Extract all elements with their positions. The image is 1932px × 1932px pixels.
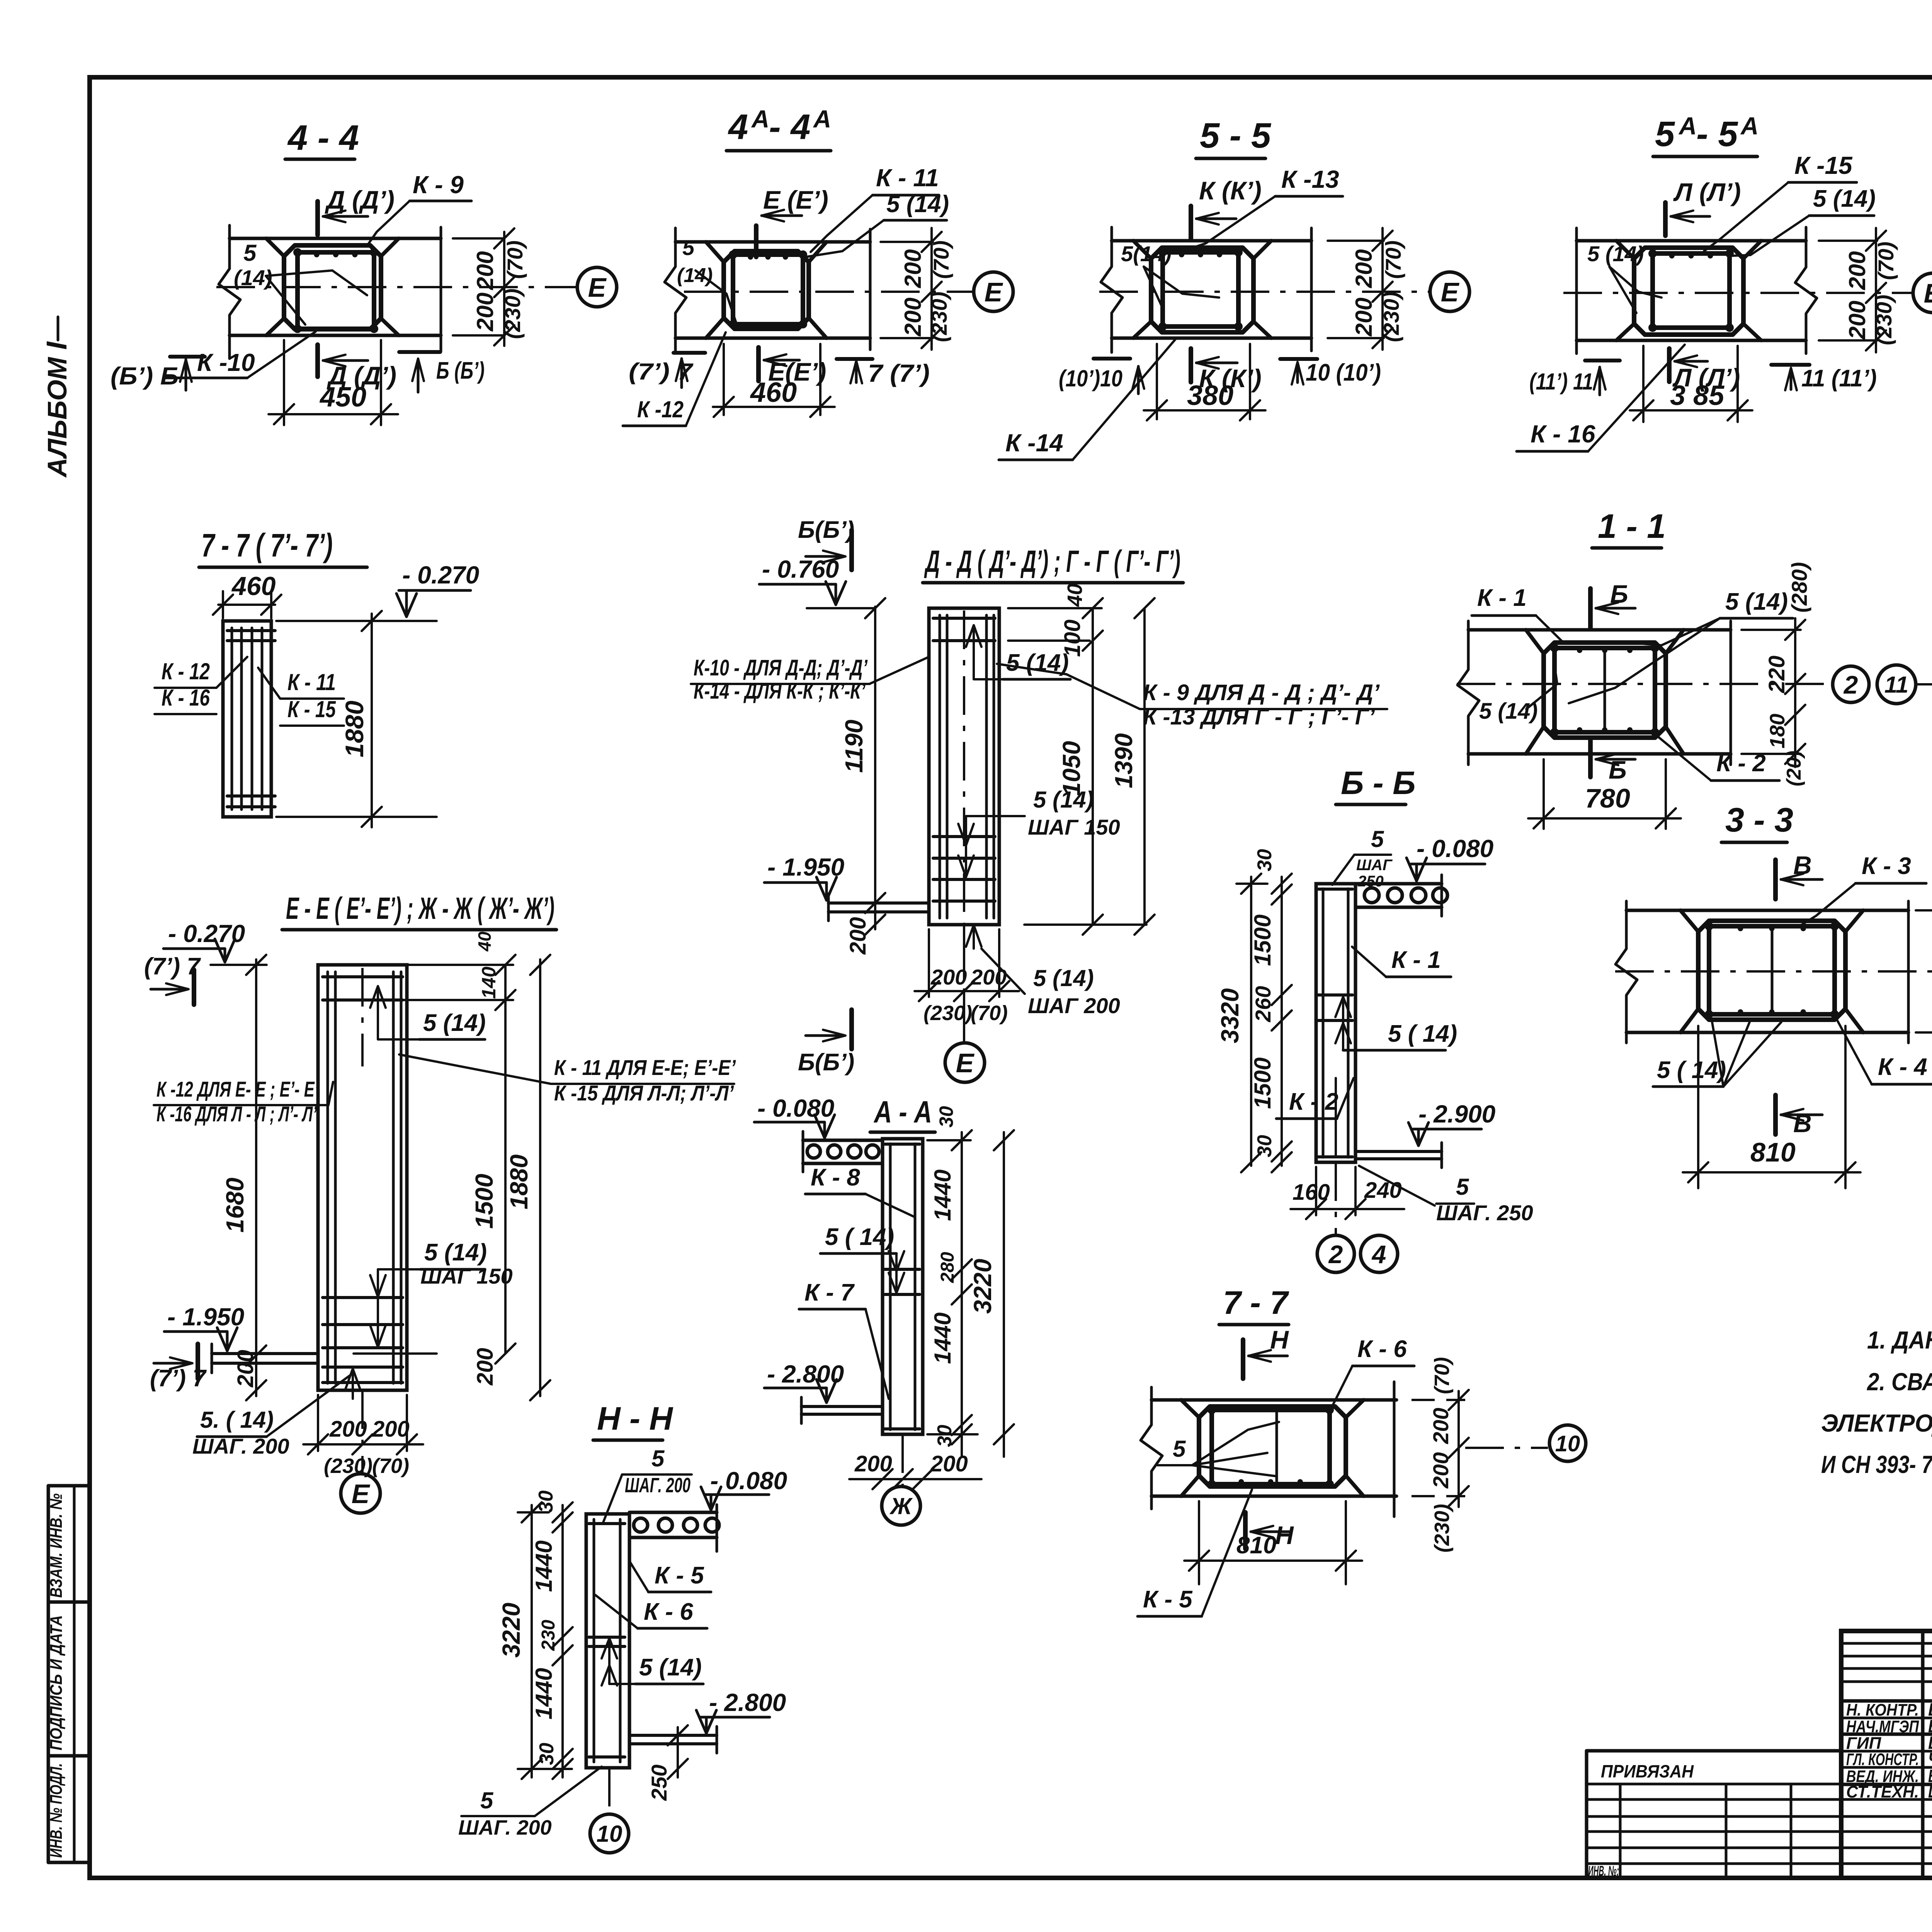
svg-text:- 1.950: - 1.950 [767,853,844,881]
svg-text:К -13 ДЛЯ Г - Г ; Г’- Г’: К -13 ДЛЯ Г - Г ; Г’- Г’ [1143,704,1375,730]
svg-text:30: 30 [535,1490,557,1513]
svg-text:- 0.270: - 0.270 [402,561,479,589]
svg-text:4: 4 [1371,1240,1386,1269]
section 4А-4А axis circle E [974,272,1013,311]
section Б-Б floor flange right [1355,1150,1442,1153]
svg-text:К-14 - ДЛЯ К-К ; К’-К’: К-14 - ДЛЯ К-К ; К’-К’ [694,679,866,704]
section 4-4 dim 450 [283,340,285,425]
svg-text:Б(Б’): Б(Б’) [798,517,854,543]
section А-А floor flange left [801,1405,883,1408]
section Д-Д floor flange left [828,901,929,905]
section Е-Е dim 1680 left [255,959,257,1396]
svg-text:140: 140 [478,966,500,999]
section Е-Е bottom dims [317,1395,319,1451]
section 5-5 beam wall lines [1112,239,1311,243]
section 5А-5А top cut arrow L [1663,202,1668,236]
section 5А-5А bottom cut arrow L [1667,349,1672,382]
svg-text:(230): (230) [500,289,525,339]
svg-text:К - 7: К - 7 [804,1279,855,1306]
svg-text:Е: Е [1924,278,1932,308]
svg-text:5 (14): 5 (14) [1033,965,1094,991]
svg-text:К - 11: К - 11 [287,669,336,695]
section 1-1 flag Б top [1588,588,1593,628]
section 5А-5А axis circle E [1913,273,1932,313]
title block left part [1587,1749,1841,1753]
section Д-Д dims right [1008,607,1102,609]
section 5А-5А flag 11 left [1585,359,1620,362]
svg-text:5: 5 [1371,826,1384,852]
section 7-7 (71-71) rebar verticals [231,628,233,810]
section 7-7 key outline [1199,1406,1346,1486]
section 5-5 flag 10 right [1280,357,1317,361]
svg-text:Л (Л’): Л (Л’) [1673,178,1741,206]
svg-text:К - 11: К - 11 [876,164,939,192]
section Б-Б axis circles 2 4 [1335,1162,1337,1235]
section 5А-5А dim 385 [1642,346,1645,422]
svg-text:200: 200 [1844,251,1870,290]
svg-text:810: 810 [1750,1137,1796,1167]
section 5-5 right dim chain [1328,240,1384,242]
svg-text:К - 1: К - 1 [1477,585,1527,611]
svg-text:1500: 1500 [1250,915,1276,966]
section А-А bottom dims [849,1478,981,1480]
section 4-4 centerline to axis [216,286,577,288]
svg-text:450: 450 [319,382,366,413]
section Е-Е centerline to axis E [361,1390,364,1472]
section 3-3 flag В bottom [1773,1095,1778,1134]
section 4А-4А top cut arrow E [754,226,759,257]
svg-text:200: 200 [1429,1452,1453,1488]
svg-text:460: 460 [750,377,797,408]
svg-text:Н: Н [1270,1325,1289,1354]
section 5А-5А flag 11 right [1771,363,1810,367]
svg-text:5. ( 14): 5. ( 14) [200,1407,274,1433]
svg-text:Д (Д’): Д (Д’) [325,185,395,214]
section 5-5 key outline [1151,248,1253,332]
svg-text:4 - 4: 4 - 4 [287,118,359,158]
svg-text:(Б’) Б: (Б’) Б [111,362,179,390]
svg-text:ПОДПИСЬ И ДАТА: ПОДПИСЬ И ДАТА [47,1615,66,1750]
svg-text:5: 5 [480,1787,494,1813]
section 3-3 dim 810 [1697,1026,1699,1188]
svg-text:11 (11’): 11 (11’) [1801,365,1877,392]
section 5-5 centerline to axis [1099,291,1430,293]
svg-text:Н. КОНТР.: Н. КОНТР. [1846,1701,1919,1719]
svg-text:200: 200 [472,293,498,332]
svg-text:К - 16: К - 16 [1531,420,1595,448]
svg-text:ЭЛЕКТРОДАМИ ТИПА Э-42 В СОО: ЭЛЕКТРОДАМИ ТИПА Э-42 В СООТВЕТСТВИИ С Г… [1821,1409,1932,1437]
section 7-7 (71-71) rungs [227,629,275,632]
section 4А-4А flag 7 right [837,357,872,361]
svg-text:К - 1: К - 1 [1391,947,1441,973]
section 7-7 flag Н bottom [1243,1512,1248,1549]
svg-text:Б: Б [1610,580,1628,608]
svg-text:460: 460 [231,571,276,601]
section 4А-4А bottom cut arrow E [756,347,761,381]
svg-text:ГЛ. КОНСТР.: ГЛ. КОНСТР. [1846,1750,1919,1769]
svg-text:- 2.900: - 2.900 [1418,1100,1495,1128]
svg-text:5: 5 [682,235,695,260]
section 5-5 top cut arrow K [1189,206,1193,240]
svg-text:К - 2: К - 2 [1289,1088,1338,1115]
section А-А axis circle Ж [901,1434,904,1486]
section 4А-4А beam break lines [665,228,686,352]
svg-text:250: 250 [647,1765,671,1801]
section Н-Н left dim chain [561,1505,564,1777]
svg-text:100: 100 [1060,619,1085,657]
svg-text:ШАГ 150: ШАГ 150 [420,1264,513,1288]
section 4А-4А centerline to axis [684,291,974,293]
svg-text:К - 6: К - 6 [1357,1336,1407,1362]
svg-text:7 - 7 ( 7’- 7’): 7 - 7 ( 7’- 7’) [201,527,333,563]
section Н-Н wall cage [593,1519,595,1762]
svg-text:К - 12: К - 12 [162,658,210,684]
svg-text:ШАГ: ШАГ [1356,857,1393,874]
svg-text:250: 250 [1357,873,1384,890]
svg-text:(70): (70) [372,1454,409,1478]
section 1-1 rebar cage [1554,648,1655,732]
section 3-3 rebar cage [1709,926,1835,1014]
section Н-Н floor flange right [629,1734,717,1737]
svg-text:200: 200 [1351,298,1377,337]
svg-text:30: 30 [536,1743,558,1765]
svg-text:К - 16: К - 16 [162,685,210,711]
section 4-4 axis circle E [577,267,617,307]
svg-text:- 0.080: - 0.080 [1417,835,1493,862]
section 4А-4А right dim chain [881,241,933,243]
svg-text:(70): (70) [1381,240,1405,279]
svg-text:ИНВ. № ПОДЛ.: ИНВ. № ПОДЛ. [47,1763,66,1858]
svg-text:1440: 1440 [531,1541,557,1592]
section 7-7 beam wall lines [1151,1398,1396,1402]
section 1-1 beam break lines [1458,621,1479,765]
svg-text:Н: Н [1275,1521,1294,1549]
section 5-5 rebar cage [1163,252,1238,327]
svg-text:Б - Б: Б - Б [1341,765,1416,801]
section 7-7 (71-71) bar outline [223,621,271,817]
svg-text:Е: Е [985,277,1003,307]
section 5А-5А rebar cage [1653,253,1730,328]
section А-А slab left [803,1139,883,1142]
section 7-7 (71-71) dim 1880 [371,614,373,827]
svg-text:11: 11 [1884,672,1908,698]
section 7-7 right dim chain [1412,1399,1465,1401]
svg-text:К - 11 ДЛЯ Е-Е; Е’-Е’: К - 11 ДЛЯ Е-Е; Е’-Е’ [554,1055,736,1080]
section 7-7 axis circle 10 [1465,1447,1548,1449]
svg-text:(11’) 11: (11’) 11 [1529,369,1593,395]
section Е-Е dims right [352,964,513,966]
section 3-3 centerline to axis [1615,970,1932,973]
svg-text:2: 2 [1843,670,1858,699]
svg-text:380: 380 [1187,380,1233,411]
svg-text:10: 10 [1555,1431,1580,1456]
svg-text:3220: 3220 [497,1603,525,1658]
section Н-Н left dim 3220 [531,1505,533,1777]
svg-text:I: I [41,341,73,350]
section Н-Н slab right [629,1511,717,1514]
svg-text:К - 9: К - 9 [413,171,464,199]
svg-text:(230): (230) [1379,292,1403,342]
svg-text:200: 200 [1351,249,1377,288]
svg-text:3 - 3: 3 - 3 [1725,801,1793,839]
section 7-7 rebar cage [1212,1410,1330,1484]
section 3-3 right dim chain [1916,909,1932,912]
svg-text:4: 4 [728,107,748,147]
svg-text:ШАГ 150: ШАГ 150 [1028,815,1120,839]
svg-text:(10’)10: (10’)10 [1059,366,1122,391]
section А-А wall outline [883,1139,923,1434]
svg-text:Е: Е [1441,277,1460,307]
section 4-4 beam wall lines [230,237,441,240]
svg-text:К (К’): К (К’) [1199,176,1262,205]
section Д-Д centerline vertical [963,611,965,1041]
section 5А-5А key outline [1634,248,1743,335]
section Н-Н wall outline [586,1514,629,1768]
svg-text:К -12 ДЛЯ Е- Е ; Е’- Е’: К -12 ДЛЯ Е- Е ; Е’- Е’ [156,1077,319,1101]
section Д-Д wall outline [929,608,999,925]
svg-text:ШАГОЛКИНА: ШАГОЛКИНА [1928,1781,1932,1801]
svg-text:5 ( 14): 5 ( 14) [1657,1057,1726,1083]
svg-text:30: 30 [934,1425,956,1447]
section 5-5 flag 10 left [1094,357,1130,361]
section 7-7 flag Н top [1241,1340,1245,1379]
svg-text:ШАГ. 200: ШАГ. 200 [625,1474,690,1497]
svg-text:5 (14): 5 (14) [424,1239,487,1266]
section Д-Д bottom dims [928,929,930,997]
svg-text:10: 10 [597,1821,622,1847]
section 3-3 key outline [1698,921,1845,1020]
svg-text:5 (14): 5 (14) [886,191,949,218]
svg-text:Н - Н: Н - Н [597,1400,673,1437]
svg-text:200: 200 [233,1350,258,1388]
svg-text:230: 230 [538,1620,559,1651]
svg-text:5 (14): 5 (14) [1813,185,1876,212]
svg-text:5: 5 [1456,1174,1469,1200]
svg-text:200: 200 [1429,1408,1453,1444]
svg-text:В: В [1793,1109,1812,1138]
svg-text:30: 30 [1253,1135,1276,1157]
svg-text:К -12: К -12 [637,396,684,422]
section 1-1 beam wall lines [1468,628,1731,632]
svg-text:(70): (70) [503,240,527,279]
section Д-Д dim 1190 left [874,607,876,929]
section 3-3 flag В top [1773,860,1778,899]
svg-text:3320: 3320 [1216,988,1244,1043]
svg-text:К -14: К -14 [1005,429,1063,457]
svg-text:200: 200 [472,251,498,290]
section 5А-5А beam wall lines [1577,239,1806,243]
section Е-Е wall cage [327,972,329,1383]
section Б-Б left dim 3320 [1250,877,1252,1166]
section 4А-4А flag 7 left [673,351,705,355]
svg-text:5: 5 [243,240,257,266]
section А-А right dim chain [927,1139,971,1141]
section Д-Д wall cage [939,615,941,918]
svg-text:780: 780 [1585,783,1630,813]
svg-text:(70): (70) [929,240,953,279]
svg-text:(280): (280) [1787,562,1811,613]
svg-text:Е - Е ( Е’- Е’) ; Ж - Ж ( Ж’-: Е - Е ( Е’- Е’) ; Ж - Ж ( Ж’- Ж’) [286,891,554,925]
svg-text:200: 200 [473,1348,498,1386]
section 4А-4А rebar cage [733,255,803,324]
svg-text:160: 160 [1293,1180,1330,1205]
section Н-Н axis circle 10 [608,1768,611,1813]
svg-text:К - 4: К - 4 [1878,1054,1927,1080]
svg-text:В: В [1793,851,1812,879]
section 5-5 bottom cut arrow K [1189,349,1193,382]
svg-text:А - А: А - А [873,1095,932,1129]
section 4-4 right dim chain [453,237,504,240]
svg-text:К - 9 ДЛЯ Д - Д ; Д’- Д’: К - 9 ДЛЯ Д - Д ; Д’- Д’ [1143,680,1380,705]
section 4-4 flag B left [170,355,205,359]
svg-text:(230): (230) [1872,295,1896,345]
svg-text:1440: 1440 [930,1313,956,1364]
svg-text:К - 5: К - 5 [655,1562,704,1589]
svg-text:К -13: К -13 [1281,165,1339,193]
svg-text:К - 6: К - 6 [644,1599,693,1625]
svg-text:А: А [813,105,831,133]
section 1-1 key outline [1544,643,1666,738]
section 5-5 axis circle E [1430,272,1469,311]
svg-text:5(14): 5(14) [1121,241,1172,266]
svg-text:Б: Б [1609,755,1627,784]
svg-text:5 ( 14): 5 ( 14) [1388,1020,1457,1047]
section Б-Б slab right [1355,882,1442,886]
section 4А-4А beam wall lines [675,240,870,244]
svg-text:- 1.950: - 1.950 [167,1303,244,1331]
svg-text:1500: 1500 [470,1174,498,1229]
svg-text:(70): (70) [1430,1357,1454,1394]
section Б-Б bottom dims [1315,1167,1317,1215]
svg-text:ВЗАМ. ИНВ. №: ВЗАМ. ИНВ. № [47,1493,66,1598]
svg-text:(70): (70) [1874,241,1898,280]
svg-text:200: 200 [845,917,871,955]
section 4-4 rebar cage [298,252,374,329]
svg-text:1500: 1500 [1250,1058,1276,1109]
svg-text:810: 810 [1236,1532,1276,1559]
svg-text:НАЧ.МГЭП: НАЧ.МГЭП [1846,1717,1919,1736]
section Б-Б left dim chain [1281,877,1283,1166]
section Е-Е wall outline [318,965,407,1390]
svg-text:7 (7’): 7 (7’) [868,359,930,387]
svg-text:30: 30 [1253,849,1276,871]
svg-text:ШАГ. 200: ШАГ. 200 [458,1816,552,1839]
svg-text:5 ( 14): 5 ( 14) [825,1224,894,1250]
svg-text:- 2.800: - 2.800 [767,1360,844,1388]
svg-text:Ж: Ж [889,1493,913,1519]
svg-text:(230): (230) [1430,1504,1454,1553]
section 5А-5А centerline to axis [1563,292,1913,294]
svg-text:Б(Б’): Б(Б’) [798,1049,854,1076]
svg-text:ШАГ. 250: ШАГ. 250 [1436,1201,1533,1225]
section 5А-5А beam break lines [1575,228,1578,354]
svg-text:ПРИВЯЗАН: ПРИВЯЗАН [1601,1761,1694,1781]
svg-text:Е (Е’): Е (Е’) [763,185,828,214]
svg-text:- 0.080: - 0.080 [710,1467,787,1495]
svg-text:(14): (14) [677,264,713,287]
svg-text:ШАГ 200: ШАГ 200 [1028,993,1120,1018]
section 1-1 right dim chain [1742,629,1801,631]
svg-text:30: 30 [935,1106,957,1128]
section Д-Д centerline to axis E [963,925,965,1041]
svg-text:200: 200 [854,1451,892,1476]
svg-text:200: 200 [900,249,926,288]
svg-text:7 - 7: 7 - 7 [1223,1284,1289,1321]
svg-text:Е: Е [956,1048,975,1078]
svg-text:(230): (230) [927,292,951,342]
title block outer [1841,1631,1932,1878]
svg-text:А: А [1740,112,1759,140]
svg-text:180: 180 [1766,714,1789,748]
svg-text:1880: 1880 [505,1155,533,1209]
svg-text:1880: 1880 [340,701,369,757]
svg-text:Е: Е [352,1479,371,1509]
title block thin rows [1841,1642,1932,1645]
svg-text:40: 40 [474,931,495,952]
section Е-Е centerline vertical [361,968,364,1066]
section 7-7 beam break lines [1141,1387,1162,1509]
svg-text:К -10: К -10 [197,349,255,376]
svg-text:5 (14): 5 (14) [1587,241,1644,266]
svg-text:А: А [1678,112,1697,140]
svg-text:200: 200 [372,1417,410,1442]
svg-text:А: А [751,105,769,133]
svg-text:40: 40 [1063,583,1087,607]
section 1-1 dim 780 [1543,759,1545,829]
svg-text:Д - Д ( Д’- Д’) ; Г - Г ( Г’-: Д - Д ( Д’- Д’) ; Г - Г ( Г’- Г’) [924,544,1180,578]
svg-text:- 5: - 5 [1696,114,1738,154]
svg-text:1. ДАННЫЙ ЛИСТ СМОТРЕТЬ СОВ: 1. ДАННЫЙ ЛИСТ СМОТРЕТЬ СОВМЕСТНО С ЛИСТ… [1867,1325,1932,1354]
svg-text:К -16 ДЛЯ Л - Л ; Л’- Л’: К -16 ДЛЯ Л - Л ; Л’- Л’ [156,1102,317,1126]
svg-text:К - 8: К - 8 [811,1164,860,1191]
svg-text:5: 5 [1655,114,1675,154]
section 1-1 axis circles 2 11 [1833,666,1869,702]
svg-text:200: 200 [930,965,967,989]
section 4-4 key outline [284,245,381,329]
svg-text:5: 5 [651,1446,665,1471]
svg-text:(20): (20) [1783,751,1805,786]
svg-text:- 2.800: - 2.800 [709,1689,786,1716]
svg-text:3 85: 3 85 [1670,380,1725,411]
section 3-3 beam wall lines [1626,909,1908,912]
svg-text:3220: 3220 [969,1259,997,1314]
left margin column block [48,1484,90,1488]
section 4-4 top cut arrow D [315,201,320,235]
svg-text:5 (14): 5 (14) [639,1654,702,1681]
svg-text:2. СВАРКУ МЕТАЛЛИЧЕСКИХ ЭЛЕМ: 2. СВАРКУ МЕТАЛЛИЧЕСКИХ ЭЛЕМЕНТОВ ПРОИЗВ… [1867,1368,1932,1396]
svg-text:2: 2 [1328,1240,1343,1269]
svg-text:1 - 1: 1 - 1 [1598,507,1666,545]
section Б-Б wall outline [1316,884,1355,1162]
section 7-7 dim 810 [1198,1501,1200,1584]
svg-text:240: 240 [1364,1178,1402,1203]
svg-text:ИНВ. №:: ИНВ. №: [1588,1863,1619,1879]
svg-text:5 (14): 5 (14) [423,1010,486,1036]
svg-text:200: 200 [900,298,926,337]
section 4-4 bottom cut arrow D [315,345,320,377]
svg-text:К -15 ДЛЯ Л-Л; Л’-Л’: К -15 ДЛЯ Л-Л; Л’-Л’ [554,1081,734,1105]
svg-text:К -15: К -15 [1794,151,1853,179]
svg-text:Б (Б’): Б (Б’) [436,357,485,384]
svg-text:260: 260 [1251,986,1275,1022]
svg-text:- 0.080: - 0.080 [757,1094,834,1122]
svg-text:Е: Е [588,272,607,303]
svg-text:К - 5: К - 5 [1143,1586,1193,1613]
svg-text:1440: 1440 [531,1668,557,1719]
svg-text:5: 5 [1173,1436,1186,1462]
svg-text:1390: 1390 [1110,733,1138,788]
svg-text:СТ.ТЕХН.: СТ.ТЕХН. [1846,1782,1919,1801]
